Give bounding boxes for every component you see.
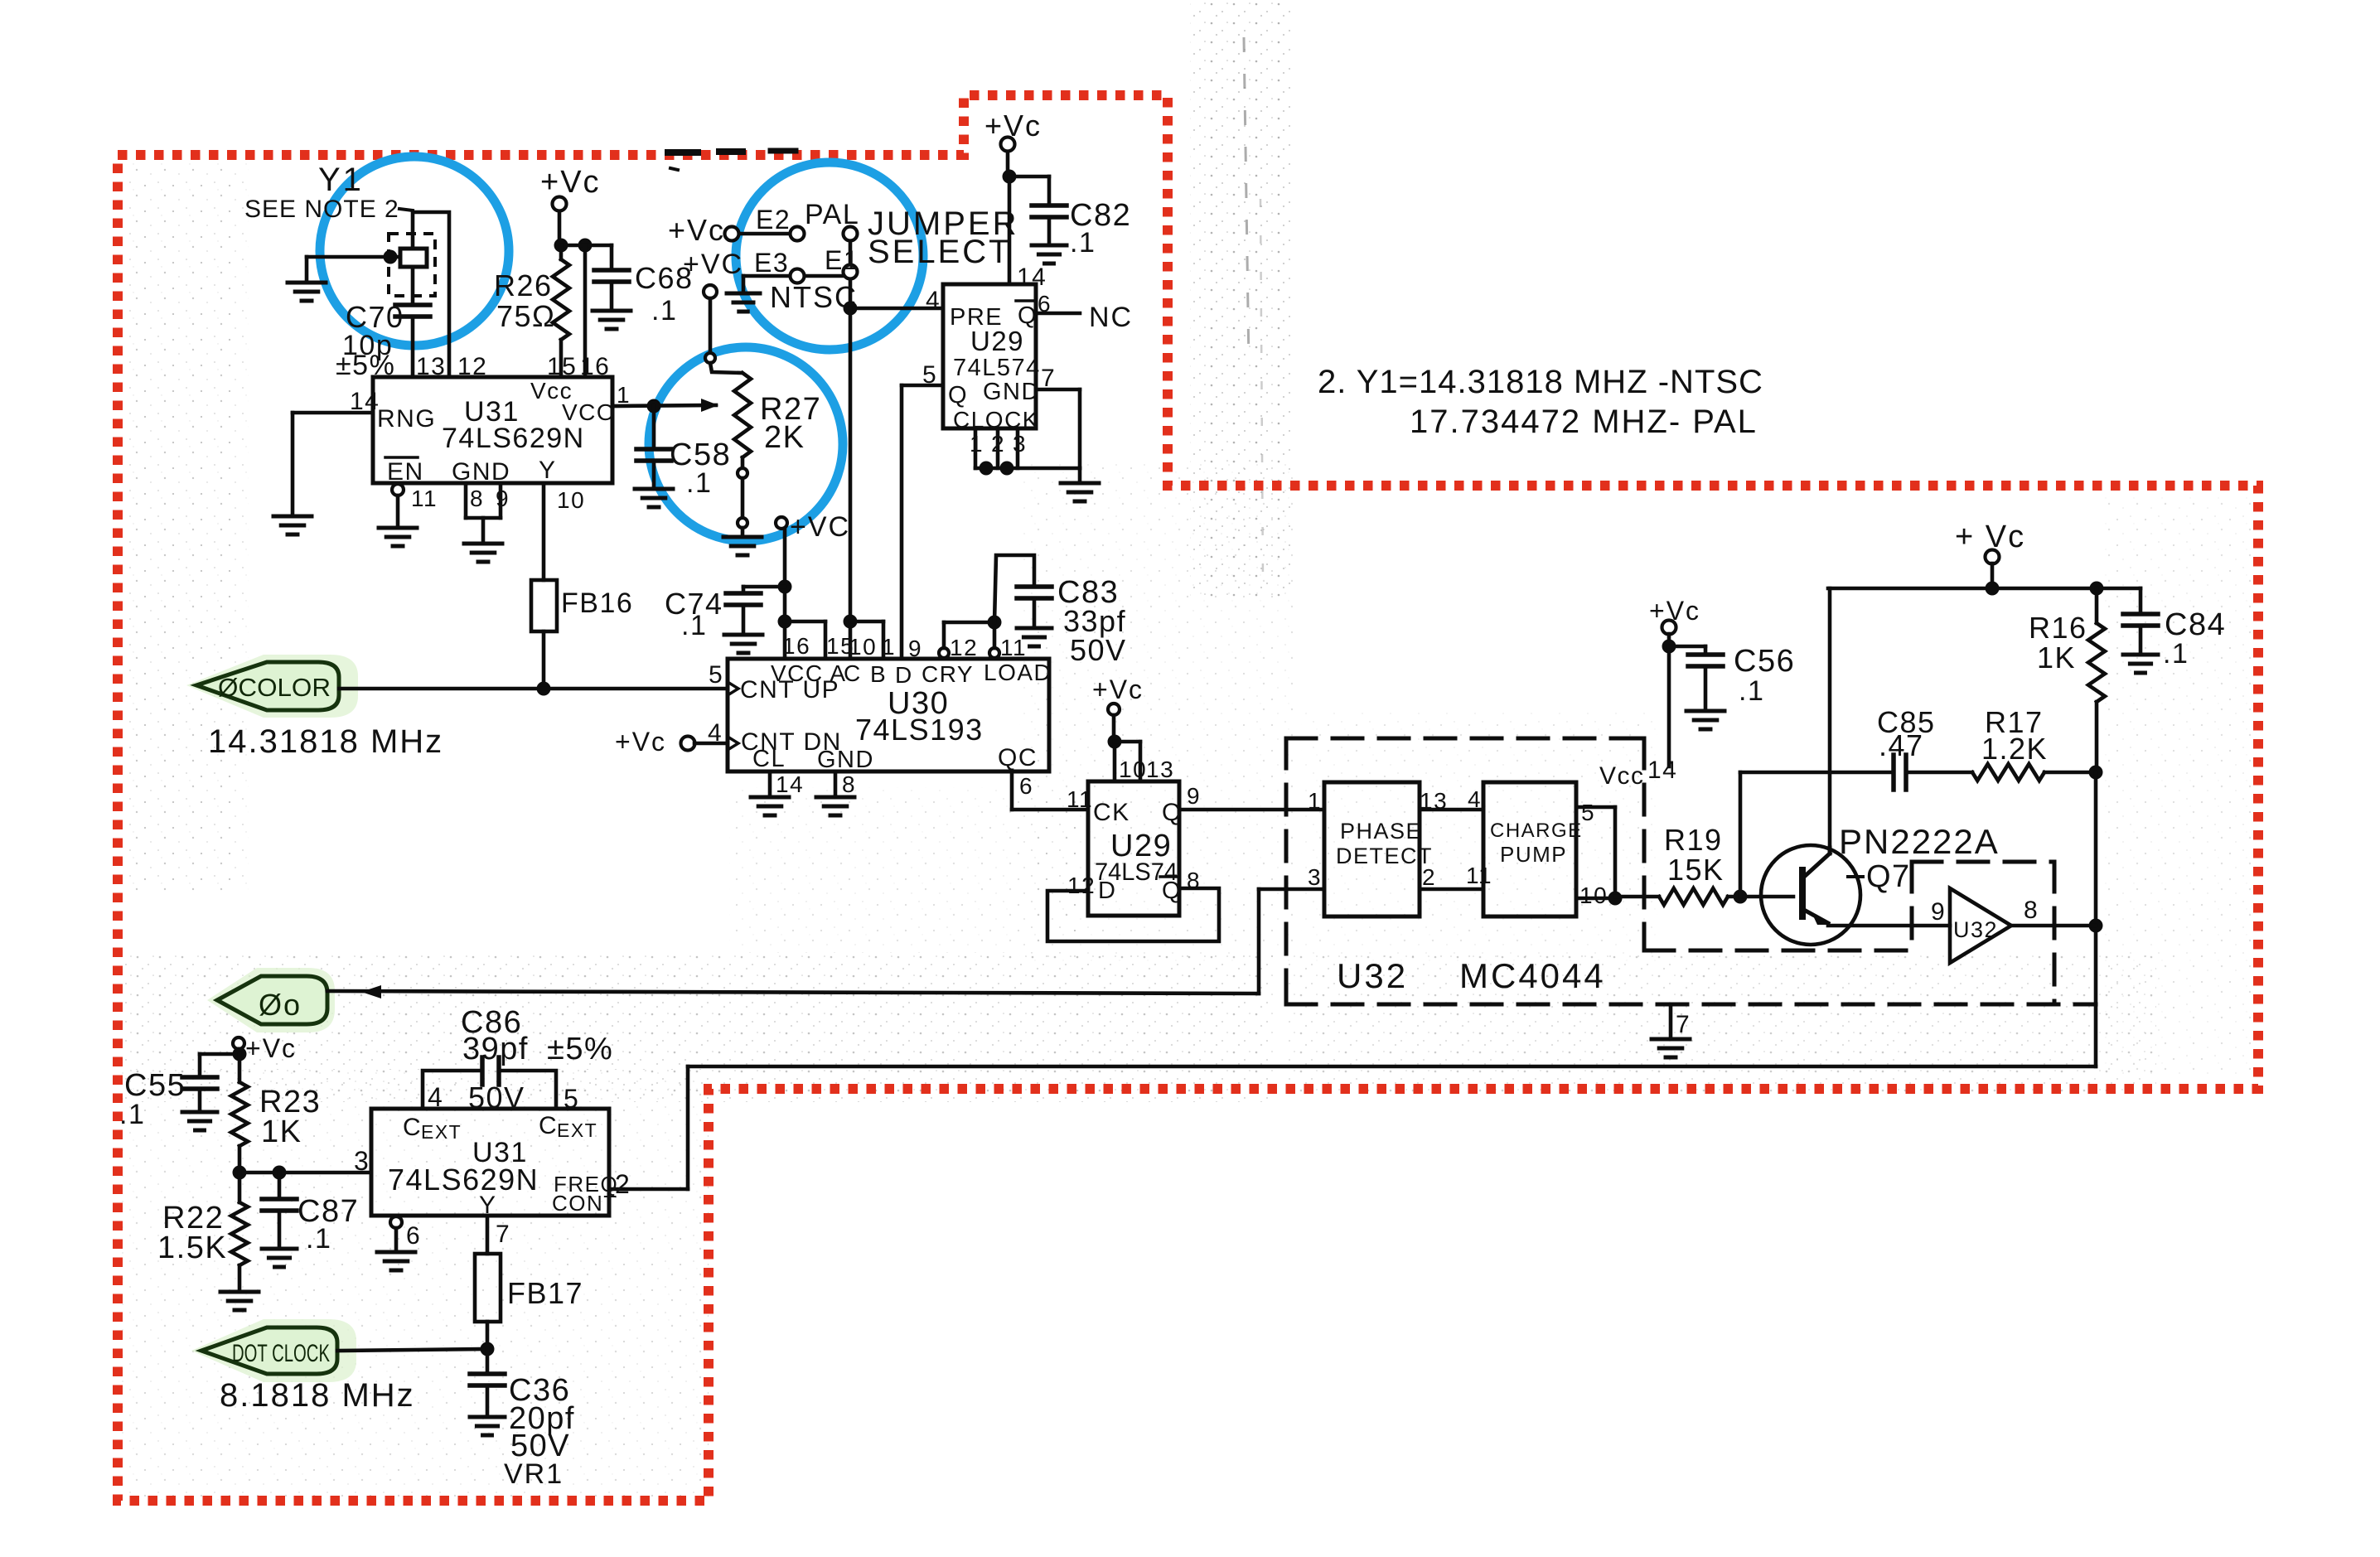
svg-text:2: 2 — [991, 431, 1005, 457]
label E2 — [756, 205, 791, 235]
svg-text:EN: EN — [387, 458, 424, 486]
svg-text:10: 10 — [557, 487, 585, 513]
label C83 — [1057, 575, 1119, 610]
wire +VC down to R27 — [709, 298, 713, 354]
label U31 — [464, 396, 520, 428]
pin label 9 — [496, 486, 510, 511]
block charge pump — [1483, 782, 1576, 916]
svg-text:VCO: VCO — [562, 399, 616, 425]
label 1 — [882, 634, 896, 660]
node C74 tap — [778, 580, 792, 594]
svg-text:74LS629N: 74LS629N — [442, 423, 585, 454]
svg-text:Q: Q — [1162, 799, 1183, 826]
label MC4044 — [1459, 956, 1606, 995]
wire DOT CLOCK — [337, 1349, 487, 1351]
wire R17 to node — [2044, 771, 2096, 775]
wire emitter to buffer — [1828, 924, 1950, 928]
svg-text:SELECT: SELECT — [868, 234, 1012, 270]
label CRY — [922, 661, 974, 687]
svg-text:Vcc: Vcc — [1599, 762, 1645, 790]
resistor R23 — [231, 1054, 248, 1171]
pin label 2 pd — [1422, 864, 1436, 890]
wire E3 to ground — [743, 276, 790, 292]
block phase detect — [1324, 782, 1420, 916]
wire E2 row — [739, 232, 790, 236]
ground RNG — [273, 413, 312, 534]
power +Vc above R26 — [540, 165, 601, 211]
wire +Vc to rail — [1991, 563, 1995, 588]
pin label 1 — [970, 431, 984, 457]
svg-text:11: 11 — [411, 486, 438, 511]
label GND — [452, 458, 510, 486]
label R16 — [2029, 611, 2087, 645]
label R16 value — [2037, 641, 2076, 675]
label 9 — [908, 636, 922, 661]
label 12 — [950, 635, 978, 660]
node flag DOT CLOCK — [191, 1319, 356, 1382]
svg-text:15K: 15K — [1667, 853, 1725, 887]
svg-text:SEE NOTE 2: SEE NOTE 2 — [244, 196, 399, 223]
svg-text:EXT: EXT — [557, 1119, 597, 1141]
pin 14 ground — [751, 771, 789, 815]
label PUMP — [1500, 842, 1567, 867]
label U30 — [888, 686, 949, 721]
svg-text:5: 5 — [709, 661, 723, 689]
svg-text:1.5K: 1.5K — [157, 1231, 227, 1265]
label C — [844, 660, 862, 686]
label C55 value — [119, 1099, 145, 1130]
label C74 — [665, 587, 723, 621]
label C70 — [346, 300, 404, 334]
power +Vc C56 — [1649, 596, 1700, 635]
svg-text:10: 10 — [849, 634, 877, 660]
label Qbar U29b — [1160, 877, 1182, 904]
pin label 13 pd — [1420, 788, 1448, 814]
svg-text:.1: .1 — [686, 467, 712, 499]
wire Y to FB17 — [486, 1216, 490, 1254]
pad R27 gnd pad — [738, 518, 747, 528]
svg-text:C70: C70 — [346, 300, 404, 334]
label 74L574 — [953, 355, 1041, 381]
svg-text:74L574: 74L574 — [953, 355, 1041, 381]
label VCC A — [771, 660, 847, 686]
svg-text:2. Y1=14.31818 MHZ -NTSC: 2. Y1=14.31818 MHZ -NTSC — [1318, 364, 1763, 400]
label E3 — [754, 248, 789, 278]
svg-text:R16: R16 — [2029, 611, 2087, 645]
jumper pad E3 — [791, 269, 805, 283]
wire freq cont riser — [609, 1066, 688, 1189]
scan crease streak — [1244, 37, 1263, 580]
svg-text:50V: 50V — [468, 1081, 525, 1115]
label 15 — [826, 633, 854, 659]
label 10 U29b — [1119, 757, 1147, 782]
wire junction link — [561, 244, 585, 248]
pin label 11 ck — [1067, 786, 1093, 812]
capacitor C70 — [395, 267, 430, 375]
label NTSC — [770, 280, 858, 314]
label 20pf — [509, 1401, 575, 1436]
label 2K — [764, 420, 805, 455]
label 74LS193 — [855, 713, 984, 747]
wire Qc pin6 — [1012, 771, 1088, 810]
node NTSC rail tap — [844, 615, 858, 629]
power + Vc rail — [1955, 520, 2025, 564]
wire R27 jog — [710, 363, 741, 373]
svg-text:DETECT: DETECT — [1336, 844, 1433, 868]
node bus dots — [980, 462, 1014, 476]
svg-text:Q7: Q7 — [1866, 859, 1911, 894]
svg-text:5: 5 — [1581, 800, 1595, 825]
label C68 — [635, 261, 694, 295]
label R17 value — [1981, 732, 2048, 766]
wire pd to cp top — [1420, 808, 1483, 812]
node vcc rail tap — [778, 615, 792, 629]
wire rail to pin15 — [785, 621, 825, 659]
node cp out — [1608, 892, 1623, 906]
node VCO junction — [647, 399, 661, 413]
svg-text:9: 9 — [1931, 898, 1946, 926]
label C85 — [1877, 705, 1936, 739]
svg-text:10: 10 — [1119, 757, 1147, 782]
wire pad to pad — [741, 478, 745, 518]
label Y b — [479, 1192, 497, 1219]
svg-text:74LS193: 74LS193 — [855, 713, 984, 747]
svg-text:±5%: ±5% — [547, 1032, 613, 1066]
svg-text:14: 14 — [1017, 264, 1047, 291]
label 75 ohm — [496, 299, 555, 333]
node C68 tap — [578, 239, 593, 253]
capacitor C86 — [482, 1057, 499, 1085]
pin label 3 pd — [1308, 864, 1322, 890]
svg-text:6: 6 — [406, 1222, 421, 1250]
svg-text:E2: E2 — [756, 205, 791, 235]
svg-text:16: 16 — [782, 633, 810, 659]
node buffer out junction — [2089, 919, 2103, 933]
label R27 — [760, 392, 821, 427]
wire pin14 down — [1667, 646, 1671, 766]
svg-text:1K: 1K — [2037, 641, 2076, 675]
pin label 11 — [411, 486, 438, 511]
svg-text:1: 1 — [970, 431, 984, 457]
svg-text:7: 7 — [1041, 365, 1056, 392]
label Q pin5 — [948, 382, 968, 409]
label 1.5K — [157, 1231, 227, 1265]
svg-text:+Vc: +Vc — [615, 727, 666, 757]
pin 8 ground — [816, 771, 854, 815]
capacitor C87 — [262, 1173, 297, 1247]
label 50V — [1070, 633, 1127, 667]
wire +Vc down — [1006, 152, 1010, 176]
label CNT DN — [728, 728, 842, 756]
svg-text:+Vc: +Vc — [1092, 675, 1144, 704]
svg-text:17.734472 MHZ- PAL: 17.734472 MHZ- PAL — [1410, 404, 1758, 440]
svg-text:1: 1 — [617, 382, 631, 408]
svg-text:GND: GND — [817, 747, 874, 773]
label SELECT — [868, 234, 1012, 270]
svg-text:E1: E1 — [825, 245, 859, 275]
ground C36 — [470, 1417, 505, 1435]
label CNT UP — [728, 676, 839, 704]
label 50V b — [468, 1081, 525, 1115]
wire +Vc U29b — [1112, 715, 1116, 740]
wire R27 top pad — [705, 353, 715, 363]
svg-text:6: 6 — [1038, 291, 1052, 317]
ground C58 — [635, 489, 673, 507]
svg-text:2: 2 — [615, 1169, 631, 1199]
label CK — [1093, 799, 1130, 826]
ground C56 — [1686, 711, 1725, 729]
wire D feedback loop — [1047, 888, 1219, 941]
pin label 6 — [1038, 291, 1052, 317]
svg-text:13: 13 — [1146, 757, 1174, 782]
node dot clock — [481, 1342, 495, 1356]
label ±5% b — [547, 1032, 613, 1066]
svg-text:Y: Y — [539, 457, 557, 484]
wire E3 to E1 — [805, 274, 843, 278]
pin label 2 — [991, 431, 1005, 457]
svg-text:4: 4 — [1468, 786, 1482, 812]
label 13 U29b — [1146, 757, 1174, 782]
pin label 5 cp — [1581, 800, 1595, 825]
pins 1 2 3 to ground bus — [975, 428, 1080, 468]
label C56 — [1734, 644, 1795, 679]
crystal Y1 — [389, 234, 435, 296]
svg-text:+VC: +VC — [790, 511, 850, 543]
wire pins 10 13 — [1115, 742, 1140, 781]
svg-text:C84: C84 — [2165, 607, 2226, 642]
label 8 — [842, 771, 856, 797]
svg-text:C55: C55 — [124, 1068, 186, 1103]
svg-text:C: C — [403, 1114, 422, 1141]
ground E3 — [727, 293, 760, 312]
label C85 value — [1879, 728, 1924, 762]
wire pins 12 11 up — [944, 622, 994, 648]
pin label 14 — [350, 388, 380, 415]
svg-text:CHARGE: CHARGE — [1490, 820, 1583, 842]
pin label 16 — [580, 353, 610, 380]
label EN — [385, 457, 424, 486]
svg-text:1: 1 — [1308, 788, 1322, 814]
svg-text:14.31818 MHz: 14.31818 MHz — [208, 723, 443, 760]
label 16 — [782, 633, 810, 659]
label FREQ — [554, 1172, 618, 1197]
wire R27 bottom — [741, 457, 745, 468]
label CEXT R — [539, 1112, 597, 1141]
label Y — [539, 457, 557, 484]
label 10 — [849, 634, 877, 660]
label Q7 — [1848, 859, 1911, 894]
label 6 — [1019, 773, 1033, 799]
pin label 4 b — [428, 1082, 443, 1112]
svg-text:11: 11 — [1000, 635, 1027, 660]
power +Vc cntdn — [615, 727, 695, 757]
label Qc — [998, 744, 1038, 771]
label D — [895, 662, 913, 688]
svg-text:C: C — [539, 1112, 558, 1139]
node NTSC junction — [844, 302, 858, 316]
pin label 15 — [547, 353, 577, 380]
flip-flop U29 74LS74 (upper) — [943, 284, 1036, 428]
wire to C55 — [200, 1054, 239, 1077]
svg-text:D: D — [895, 662, 913, 688]
label LOAD — [984, 660, 1052, 685]
wire FB16 to color line — [542, 631, 546, 689]
svg-text:QC: QC — [998, 744, 1038, 771]
dashed box U32 MC4044 — [1286, 738, 2096, 1004]
label PN2222A — [1839, 822, 2000, 861]
pin 7 ground U32 — [1652, 1004, 1690, 1057]
capacitor C84 — [2123, 588, 2158, 653]
wire to C83 — [994, 555, 1034, 622]
wire output column — [2094, 772, 2098, 1066]
svg-text:11: 11 — [1466, 863, 1492, 888]
label C56 value — [1739, 675, 1764, 707]
svg-text:.1: .1 — [651, 295, 677, 326]
svg-text:.1: .1 — [1070, 227, 1096, 259]
label VR1 — [504, 1458, 564, 1490]
svg-text:EXT: EXT — [421, 1121, 462, 1143]
svg-text:C56: C56 — [1734, 644, 1795, 679]
wire pin4 C86 — [423, 1071, 482, 1109]
pin label 6 b — [406, 1222, 421, 1250]
svg-text:DOT CLOCK: DOT CLOCK — [232, 1340, 330, 1367]
svg-text:C: C — [844, 660, 862, 686]
svg-text:11: 11 — [1067, 786, 1093, 812]
ground left of Y1 — [288, 257, 326, 301]
note Y1 frequencies line1 — [1318, 364, 1763, 400]
svg-text:U29: U29 — [970, 326, 1024, 356]
wire NTSC line down to U30 — [849, 308, 853, 659]
node base tap — [1734, 890, 1748, 904]
label FB16 — [561, 588, 633, 619]
svg-text:+Vc: +Vc — [540, 165, 601, 200]
label GND U30 — [817, 747, 874, 773]
svg-text:NC: NC — [1089, 302, 1133, 333]
svg-text:CL: CL — [752, 746, 786, 772]
label U32 — [1337, 956, 1408, 995]
svg-text:12: 12 — [1067, 873, 1096, 898]
wire E1 down to NTSC node — [849, 279, 853, 308]
note label SEE NOTE 2 — [244, 196, 413, 223]
ground U29 bus — [1061, 468, 1099, 501]
wire pin 14 U29 — [1008, 176, 1012, 284]
power +VC mid — [776, 511, 850, 543]
svg-text:GND: GND — [983, 379, 1040, 405]
wire +Vc to R26 — [558, 211, 562, 245]
blue highlight circle around R27 C58 — [649, 347, 843, 541]
svg-text:3: 3 — [1013, 431, 1027, 457]
label FB17 — [507, 1276, 583, 1310]
blue highlight circle around Y1 crystal — [320, 157, 509, 346]
svg-text:9: 9 — [908, 636, 922, 661]
label U29 — [970, 326, 1024, 356]
wire +Vc to pin4 — [694, 742, 728, 746]
pin label 7 b — [496, 1221, 510, 1248]
ground under C68 — [593, 311, 631, 329]
pin label 4 PRE — [926, 287, 941, 314]
svg-text:VR1: VR1 — [504, 1458, 564, 1490]
wire collector riser — [1828, 588, 1832, 848]
label 50V c36 — [510, 1429, 570, 1463]
label JUMPER — [868, 206, 1018, 242]
label 74LS74b — [1095, 858, 1178, 886]
wire Q out to phase det — [1179, 808, 1324, 812]
svg-text:1.2K: 1.2K — [1981, 732, 2048, 766]
node C87 tap — [273, 1166, 287, 1180]
pin pads 12 11 — [939, 648, 999, 658]
wire PHI0 riser to pin3 — [1259, 889, 1324, 994]
node C82 tap — [1003, 170, 1017, 184]
label Vcc U32 — [1599, 762, 1645, 790]
capacitor C68 — [594, 270, 629, 309]
note Y1 frequencies line2 — [1410, 404, 1758, 440]
svg-text:Q: Q — [1162, 878, 1182, 904]
label B — [870, 661, 887, 687]
svg-text:R26: R26 — [494, 268, 553, 302]
node crystal left junction — [384, 250, 398, 264]
label R26 — [494, 268, 553, 302]
op-amp U31 74LS629N (top) — [373, 377, 612, 483]
blue highlight circle around jumper select — [736, 162, 923, 350]
label Vcc pin16 — [530, 378, 573, 404]
pin label 3 bl — [354, 1146, 370, 1176]
svg-text:FB17: FB17 — [507, 1276, 583, 1310]
wire feedback bottom — [688, 1065, 2096, 1069]
node C56 tap — [1662, 640, 1676, 654]
label R19 — [1664, 823, 1723, 857]
label CEXT L — [403, 1114, 462, 1143]
svg-text:PHASE: PHASE — [1340, 819, 1422, 844]
label 14.31818 MHz — [208, 723, 443, 760]
pin 11 enable — [379, 484, 417, 546]
label C58 value — [686, 467, 712, 499]
wire pd to cp bottom — [1420, 887, 1483, 892]
pin label 8 — [470, 486, 484, 511]
svg-text:7: 7 — [1676, 1011, 1691, 1038]
ground C87 — [262, 1249, 297, 1267]
wire base to C85 — [1740, 772, 1894, 897]
capacitor C74 — [726, 587, 785, 633]
label 39pf — [462, 1032, 529, 1066]
svg-text:CNT UP: CNT UP — [740, 676, 839, 704]
label C58 — [670, 438, 731, 472]
jumper pad PAL — [844, 227, 858, 241]
svg-text:U32: U32 — [1953, 917, 1998, 942]
ground C82 — [1032, 245, 1067, 264]
label 33pf — [1063, 604, 1126, 638]
label C82 — [1070, 198, 1131, 233]
label 15K — [1667, 853, 1725, 887]
svg-text:.1: .1 — [119, 1099, 145, 1130]
pin label 8 buf — [2024, 897, 2039, 924]
wire to C82 — [1009, 176, 1049, 206]
capacitor C56 — [1688, 655, 1723, 709]
pin label 12 — [457, 353, 487, 380]
svg-text:+Vc: +Vc — [245, 1033, 297, 1063]
wire Q pin5 out — [902, 385, 943, 659]
ferrite bead FB16 — [531, 580, 557, 631]
svg-text:MC4044: MC4044 — [1459, 956, 1606, 995]
pin label 4 cp — [1468, 786, 1482, 812]
svg-text:5: 5 — [922, 361, 937, 389]
svg-text:CONT: CONT — [552, 1191, 618, 1216]
wire crystal top to pin 12 — [413, 212, 449, 375]
label CL — [752, 746, 786, 772]
capacitor C55 — [182, 1077, 217, 1110]
svg-text:RNG: RNG — [377, 405, 436, 433]
label Q U29b — [1162, 799, 1183, 826]
pin label 7 — [1041, 365, 1056, 392]
